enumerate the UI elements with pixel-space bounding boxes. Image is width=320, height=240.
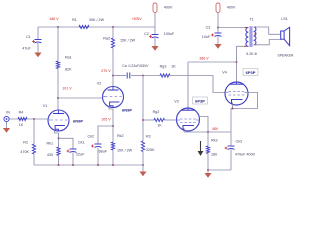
capacitor Ck1	[70, 148, 77, 150]
wire V4 cathode	[232, 103, 234, 109]
svg-text:386 V: 386 V	[199, 57, 209, 61]
power port 400V left	[153, 3, 157, 13]
svg-text:C2: C2	[144, 32, 149, 36]
svg-text:22uF: 22uF	[76, 153, 85, 157]
wire OPT primary bottom link	[237, 46, 249, 62]
wire top B+ rail	[38, 26, 155, 28]
resistor R1	[79, 25, 89, 28]
svg-text:R2: R2	[23, 141, 28, 145]
svg-text:Rk2: Rk2	[117, 134, 124, 138]
ground output stage	[204, 173, 211, 178]
wire R2 column	[33, 119, 35, 144]
svg-text:68uF: 68uF	[99, 149, 108, 153]
resistor Rk3	[206, 146, 209, 154]
wire Rk1 to rail	[58, 156, 60, 166]
wire Rg2 to V3 grid	[165, 119, 178, 121]
svg-text:V1: V1	[43, 104, 48, 108]
wire Ck3 drop	[230, 132, 232, 146]
junction V4 cathode	[232, 108, 234, 110]
svg-text:1K: 1K	[171, 65, 176, 69]
svg-text:+305V: +305V	[131, 17, 142, 21]
wire V4 plate drop	[236, 62, 238, 83]
svg-text:15K / 2W: 15K / 2W	[120, 39, 136, 43]
capacitor Ca	[126, 73, 128, 79]
wire Rk3 bottom	[207, 154, 209, 171]
junction top-mid	[112, 26, 114, 28]
svg-text:Ck1: Ck1	[78, 141, 85, 145]
ground bottom rail	[139, 172, 146, 177]
svg-text:10K / 2W: 10K / 2W	[117, 149, 133, 153]
power port 400V right	[216, 3, 220, 13]
svg-text:SPEAKER: SPEAKER	[277, 54, 294, 58]
junction grid node	[142, 75, 144, 77]
junction plate rail	[236, 61, 238, 63]
svg-text:1K: 1K	[157, 124, 162, 128]
wire Rg3 to V4 grid	[170, 76, 226, 93]
resistor Ra1	[56, 61, 59, 69]
svg-text:Rg3: Rg3	[160, 65, 167, 69]
junction rail x73	[72, 164, 74, 166]
wire Ra2 top	[112, 27, 114, 38]
svg-text:6N9P: 6N9P	[73, 119, 83, 124]
wire grid node column	[142, 76, 144, 142]
svg-text:R1: R1	[72, 18, 77, 22]
resistor Rk2	[111, 142, 114, 150]
wire bottom rail	[34, 164, 143, 166]
wire C1 to ground	[37, 43, 39, 53]
svg-text:270 V: 270 V	[101, 69, 111, 73]
svg-text:47uF: 47uF	[22, 47, 31, 51]
wire C2 to ground	[154, 38, 156, 46]
junction V1 plate node	[57, 97, 59, 99]
svg-text:48V: 48V	[212, 127, 219, 131]
label V4 type box	[243, 69, 258, 76]
wire C1 drop	[37, 27, 39, 40]
svg-text:0.22uF/630V: 0.22uF/630V	[128, 64, 149, 68]
wire port2 stem	[217, 13, 219, 34]
ground input	[3, 128, 10, 133]
wire V1 plate to V2 grid	[58, 97, 103, 99]
svg-text:5.2K:8: 5.2K:8	[246, 52, 256, 56]
ground C1	[34, 53, 41, 58]
transformer T1 core	[249, 26, 251, 47]
svg-text:V4: V4	[222, 71, 227, 75]
resistor R2	[32, 144, 35, 154]
resistor Rg2	[154, 118, 165, 121]
junction rail x113	[112, 164, 114, 166]
wire V3 plate drop	[187, 62, 189, 109]
wire grid node to Rg3	[143, 75, 160, 77]
resistor Rk1	[57, 147, 60, 155]
wire Ra2 to V2 plate	[112, 48, 114, 88]
wire Ck2 branch	[98, 126, 113, 144]
svg-text:400V: 400V	[227, 6, 236, 10]
junction OPT feed	[217, 27, 219, 29]
resistor R3	[141, 141, 144, 152]
wire Ck1 branch	[59, 138, 74, 149]
pentode V4	[225, 82, 248, 105]
wire R2 to rail	[33, 154, 35, 165]
junction Rg2 tap	[142, 119, 144, 121]
svg-text:10uF: 10uF	[202, 35, 211, 39]
wire Rk2 to rail	[112, 150, 114, 165]
svg-text:100uF: 100uF	[164, 32, 175, 36]
junction Rk3 ground	[207, 169, 209, 171]
svg-text:Rk1: Rk1	[46, 142, 53, 146]
wire V1 cathode	[55, 130, 59, 147]
connector IN jack	[4, 116, 9, 121]
junction rail x58.5	[58, 164, 60, 166]
resistor R4	[18, 117, 27, 120]
svg-text:105 V: 105 V	[101, 118, 111, 122]
wire Ck2 to rail	[97, 148, 99, 165]
svg-text:Rg2: Rg2	[153, 110, 160, 114]
wire cathode rail	[184, 131, 231, 133]
wire V4 cathode drop	[230, 109, 232, 133]
speaker LS1	[281, 31, 284, 39]
junction V1 cathode	[58, 137, 60, 139]
junction Rk3 top	[207, 131, 209, 133]
ground C3	[214, 44, 221, 49]
transformer T1 primary	[246, 28, 248, 47]
svg-text:430: 430	[47, 153, 53, 157]
wire V2 cathode	[109, 107, 113, 143]
svg-text:180: 180	[211, 153, 217, 157]
capacitor C2	[152, 34, 159, 36]
junction input node	[33, 118, 35, 120]
svg-text:IN: IN	[6, 111, 10, 115]
svg-text:6N9P: 6N9P	[122, 108, 132, 113]
resistor Rg3	[160, 74, 170, 77]
wire V3 cathode	[183, 130, 185, 132]
wire C2 drop	[154, 27, 156, 35]
junction rail x98	[97, 164, 99, 166]
svg-text:Ck3: Ck3	[236, 140, 243, 144]
svg-text:C3: C3	[206, 26, 211, 30]
svg-text:Ra1: Ra1	[65, 56, 72, 60]
svg-text:T1: T1	[249, 18, 253, 22]
wire input	[10, 118, 49, 120]
svg-text:Ck2: Ck2	[87, 135, 94, 139]
transformer pin marks	[244, 27, 256, 46]
wire grid node to Rg2	[143, 119, 154, 121]
svg-text:6P3P: 6P3P	[195, 99, 205, 104]
wire port1 stem	[154, 13, 156, 28]
svg-text:82K: 82K	[65, 68, 72, 72]
svg-text:6P3P: 6P3P	[246, 70, 256, 75]
capacitor C1	[35, 39, 42, 41]
svg-text:186 V: 186 V	[49, 17, 59, 21]
wire B+ to OPT	[218, 27, 248, 29]
svg-text:R3: R3	[146, 135, 151, 139]
wire R3 to rail	[142, 152, 144, 166]
capacitor C3	[215, 32, 222, 34]
triode V1	[48, 110, 69, 131]
capacitor Ck2	[95, 143, 102, 145]
svg-text:470uF 400V: 470uF 400V	[235, 153, 256, 157]
wire Rk3 ground stem	[207, 170, 209, 173]
transformer T1 secondary	[254, 27, 256, 45]
wire rail-end ground stem	[142, 165, 144, 172]
capacitor Ck3	[228, 145, 235, 147]
svg-text:V2: V2	[97, 82, 102, 86]
wire V3 screen loop	[199, 117, 208, 133]
svg-text:400V: 400V	[164, 6, 173, 10]
wire to Ca	[113, 75, 126, 77]
junction top-left	[57, 26, 59, 28]
junction V2 cathode	[112, 125, 114, 127]
wire V4 screen loop	[231, 93, 258, 109]
wire Ca to grid node	[131, 75, 143, 77]
svg-text:Rk3: Rk3	[211, 139, 218, 143]
pentode V3	[177, 108, 200, 131]
junction rail end	[142, 164, 144, 166]
svg-text:V3: V3	[174, 100, 179, 104]
wire Ck3 bottom	[230, 150, 232, 171]
svg-text:LS1: LS1	[281, 17, 288, 21]
wire jack to ground	[6, 122, 8, 128]
svg-text:220K: 220K	[146, 148, 155, 152]
ground C2	[151, 46, 158, 51]
wire Ra1 top	[57, 27, 59, 61]
wire Rk3 to bottom	[207, 132, 209, 146]
svg-text:1K: 1K	[19, 123, 24, 127]
arrow annotation	[200, 141, 202, 152]
svg-text:C1: C1	[26, 35, 31, 39]
svg-text:R4: R4	[19, 111, 24, 115]
svg-text:Ra2: Ra2	[103, 37, 110, 41]
label V3 type box	[193, 97, 208, 104]
svg-text:101 V: 101 V	[62, 87, 72, 91]
wire cathode bottom link	[208, 169, 231, 171]
junction Ca node	[112, 75, 114, 77]
resistor Ra2	[111, 38, 114, 48]
wire Ck1 to rail	[72, 153, 74, 166]
svg-text:30K / 2W: 30K / 2W	[89, 18, 105, 22]
wire OPT secondary bottom	[254, 40, 281, 45]
wire plate rail	[188, 61, 237, 63]
svg-text:Ca: Ca	[122, 64, 128, 68]
svg-text:470K: 470K	[20, 150, 29, 154]
wire OPT secondary top	[254, 27, 281, 34]
triode V2	[103, 87, 124, 108]
wire Ra1 to V1 plate	[57, 69, 59, 111]
wire C3 to ground	[217, 37, 219, 45]
